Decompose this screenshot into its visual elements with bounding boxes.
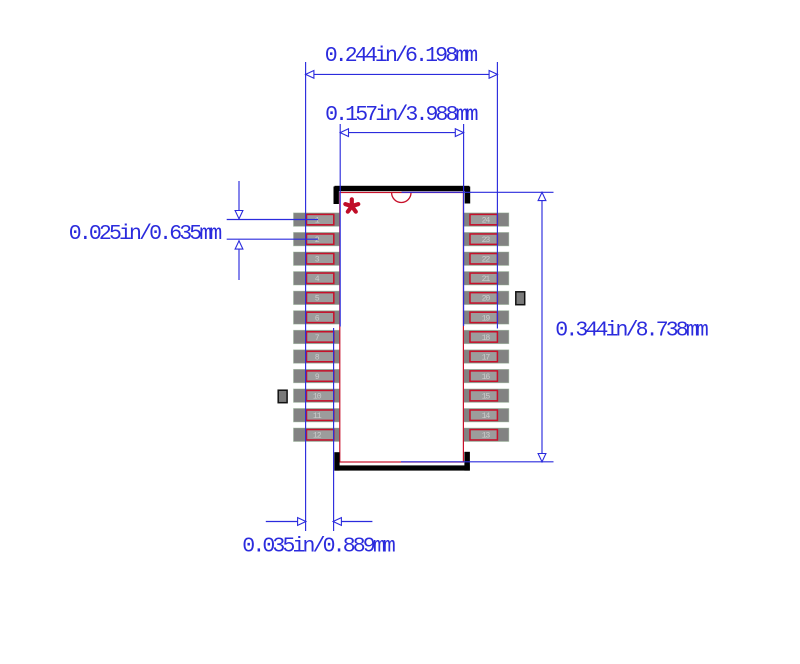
svg-text:10: 10: [313, 393, 322, 402]
svg-text:0.157in/3.988mm: 0.157in/3.988mm: [325, 103, 478, 127]
svg-text:14: 14: [482, 412, 491, 421]
svg-text:11: 11: [313, 412, 322, 421]
svg-text:13: 13: [482, 432, 491, 441]
svg-text:19: 19: [482, 314, 491, 323]
svg-text:20: 20: [482, 295, 491, 304]
svg-text:21: 21: [482, 275, 491, 284]
svg-text:24: 24: [482, 217, 491, 226]
svg-text:23: 23: [482, 236, 491, 245]
svg-text:0.244in/6.198mm: 0.244in/6.198mm: [325, 44, 478, 68]
svg-text:15: 15: [482, 393, 491, 402]
svg-text:22: 22: [482, 256, 491, 265]
svg-text:0.344in/8.738mm: 0.344in/8.738mm: [555, 318, 708, 342]
svg-text:0.025in/0.635mm: 0.025in/0.635mm: [69, 222, 222, 246]
svg-text:16: 16: [482, 373, 491, 382]
svg-text:17: 17: [482, 353, 491, 362]
svg-text:18: 18: [482, 334, 491, 343]
svg-text:0.035in/0.889mm: 0.035in/0.889mm: [242, 535, 395, 559]
svg-text:12: 12: [313, 432, 322, 441]
